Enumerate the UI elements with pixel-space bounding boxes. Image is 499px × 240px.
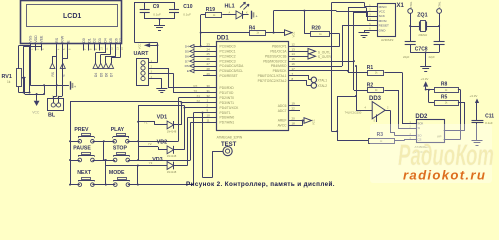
wire SCK riser xyxy=(289,70,348,72)
svg-text:32: 32 xyxy=(207,94,211,98)
svg-text:PC6/RESET: PC6/RESET xyxy=(220,74,238,78)
pushbutton STOP xyxy=(113,146,130,162)
svg-text:DD3: DD3 xyxy=(369,96,382,102)
svg-text:AVCC: AVCC xyxy=(278,124,288,128)
node RS triangle at DD1 xyxy=(185,64,203,68)
wire row2 middle xyxy=(92,160,115,162)
wire X1 GND to ground xyxy=(364,30,368,32)
DD1 left pin 1 PD3/INT1 xyxy=(203,99,234,105)
svg-text:STOP: STOP xyxy=(113,146,128,152)
svg-text:D6: D6 xyxy=(114,38,118,43)
resistor R1 xyxy=(367,65,384,76)
svg-text:XTAL: XTAL xyxy=(409,1,413,8)
svg-text:23: 23 xyxy=(207,42,211,46)
node XTAL circle right xyxy=(437,1,442,13)
svg-text:TX: TX xyxy=(194,89,198,93)
wire VD1 riser to PD3 xyxy=(174,124,182,126)
wire R4 to arrow xyxy=(266,32,285,34)
svg-text:0.1uF: 0.1uF xyxy=(183,12,191,16)
DD1 left pin 10 PD6/AIN0 xyxy=(203,114,234,120)
svg-text:16: 16 xyxy=(292,62,296,66)
svg-text:31: 31 xyxy=(207,89,211,93)
diode VD3 1N4148 xyxy=(152,157,177,174)
wire MISO riser xyxy=(331,3,333,132)
wire to VCC triangle xyxy=(44,85,46,94)
node RS net triangle xyxy=(50,44,57,77)
svg-text:VSS: VSS xyxy=(29,35,33,43)
node D5 net triangle xyxy=(98,44,110,77)
svg-text:PD6/AIN0: PD6/AIN0 xyxy=(220,116,235,120)
svg-text:PD4/T0/XCK: PD4/T0/XCK xyxy=(220,106,240,110)
svg-text:VCC: VCC xyxy=(312,119,316,125)
svg-text:+3.3V: +3.3V xyxy=(470,94,478,98)
svg-text:PC1/ADC1: PC1/ADC1 xyxy=(220,50,236,54)
svg-text:29MHz: 29MHz xyxy=(418,33,427,37)
buffer DD3 74LVC1G125 xyxy=(345,96,389,123)
svg-text:X2: X2 xyxy=(197,99,201,103)
wire LCD VSS jog to RV1 top xyxy=(19,45,31,47)
svg-text:K: K xyxy=(246,11,248,15)
wire row3 riser to PD5 xyxy=(193,113,195,185)
svg-text:S_OUTR: S_OUTR xyxy=(318,55,332,59)
pushbutton PREV xyxy=(74,127,94,143)
ground under C11 xyxy=(472,141,483,146)
wire R5 left xyxy=(429,102,434,104)
svg-text:PB6/TOSC1/XTAL1: PB6/TOSC1/XTAL1 xyxy=(258,74,287,78)
wire row2 riser to PD7 xyxy=(190,122,192,160)
wire R3 right xyxy=(394,140,404,142)
DD1 right pin 18 AVCC xyxy=(278,121,300,127)
node XTAL circle left xyxy=(408,1,413,13)
svg-text:E: E xyxy=(61,74,65,76)
DD1 left pin 26 PC3/ADC3 xyxy=(203,57,236,63)
wire VD3 riser to PD6 xyxy=(174,165,188,167)
svg-text:TEST: TEST xyxy=(221,142,237,148)
svg-text:PD1/TXD: PD1/TXD xyxy=(220,91,235,95)
IC DD1 ATmega8 xyxy=(217,36,289,140)
wire LCD VEE riser xyxy=(29,47,31,93)
capacitor C9 0.1uF xyxy=(140,2,161,19)
node D7 triangle at DD1 xyxy=(185,59,203,63)
net arrow S_OUTL xyxy=(289,49,331,55)
resistor R8 xyxy=(435,81,459,92)
wire C9 C10 bottom rail xyxy=(145,18,174,20)
svg-text:D0: D0 xyxy=(82,38,86,43)
node D4 net triangle xyxy=(93,44,106,77)
connector UART xyxy=(134,51,156,86)
svg-text:19: 19 xyxy=(292,102,296,106)
DD1 left pin 25 PC2/ADC2 xyxy=(203,52,236,58)
svg-text:BL: BL xyxy=(48,113,56,119)
pushbutton PLAY xyxy=(111,127,129,143)
svg-text:D5: D5 xyxy=(99,73,103,77)
svg-text:0.1uF: 0.1uF xyxy=(153,12,161,16)
svg-text:D5: D5 xyxy=(109,38,113,43)
diode VD1 1N4148 xyxy=(157,114,177,133)
svg-text:VD1: VD1 xyxy=(157,114,168,120)
svg-text:D7: D7 xyxy=(119,38,123,43)
pushbutton PAUSE xyxy=(73,146,94,162)
DD1 right pin 20 AREF xyxy=(278,117,300,123)
wire R20 left riser xyxy=(304,11,306,34)
svg-text:PB3/MOSI/OC2: PB3/MOSI/OC2 xyxy=(263,59,286,63)
resistor R5 xyxy=(435,95,459,106)
svg-text:C9: C9 xyxy=(153,4,160,10)
svg-text:R1: R1 xyxy=(367,65,374,71)
wire UART pin1 VCC xyxy=(155,62,157,64)
ground under UART xyxy=(156,89,167,93)
wire VCC rail top xyxy=(273,11,275,33)
node E triangle at DD1 xyxy=(187,69,203,73)
wire UART pin4 to ground xyxy=(155,78,162,80)
wire row1 middle xyxy=(92,141,114,143)
svg-text:RV1: RV1 xyxy=(2,74,12,80)
power +3.3V arrow feeding R8 R5 xyxy=(421,77,429,91)
svg-text:PC0/ADC0: PC0/ADC0 xyxy=(220,45,236,49)
svg-text:Y2: Y2 xyxy=(148,142,152,146)
DD1 right pin 8 PB7/TOSC2/XTAL2 xyxy=(258,77,300,83)
svg-text:15: 15 xyxy=(292,57,296,61)
svg-text:D4: D4 xyxy=(185,45,189,49)
svg-text:1N4148: 1N4148 xyxy=(167,154,177,158)
wire row1 riser to PD2 xyxy=(178,98,180,142)
svg-text:30: 30 xyxy=(207,84,211,88)
svg-text:28: 28 xyxy=(207,67,211,71)
wire LCD VDD riser xyxy=(23,46,25,92)
wire power rail y85 xyxy=(30,85,69,87)
svg-text:14: 14 xyxy=(292,52,296,56)
svg-text:24: 24 xyxy=(207,47,211,51)
svg-text:S_OUTL: S_OUTL xyxy=(318,50,331,54)
power symbol +V near LCD xyxy=(71,81,77,89)
svg-text:PD7/AIN1: PD7/AIN1 xyxy=(220,121,235,125)
DD1 left pin 28 PC5/ADC5/SCL xyxy=(203,67,243,73)
svg-text:PC3/ADC3: PC3/ADC3 xyxy=(220,59,236,63)
svg-text:X1: X1 xyxy=(197,94,201,98)
wire BL pin1 xyxy=(56,56,58,96)
svg-text:PD2/INT0: PD2/INT0 xyxy=(220,96,235,100)
svg-text:12: 12 xyxy=(292,42,296,46)
node XTAL2 circle xyxy=(289,81,328,89)
svg-text:GND: GND xyxy=(379,28,387,32)
svg-text:RS: RS xyxy=(185,64,189,68)
svg-text:ATMEGA8_32PIN: ATMEGA8_32PIN xyxy=(217,136,243,140)
svg-text:R5: R5 xyxy=(441,95,448,101)
svg-text:D4: D4 xyxy=(104,38,108,43)
wire +3.3V to R8 xyxy=(426,89,434,91)
wire R1 right to DD2 SCK xyxy=(384,72,402,74)
svg-text:1N4148: 1N4148 xyxy=(167,170,177,174)
svg-text:VEE: VEE xyxy=(40,35,44,43)
svg-text:D2: D2 xyxy=(93,38,97,43)
svg-text:PB1/OC1A: PB1/OC1A xyxy=(270,50,287,54)
svg-text:VCC: VCC xyxy=(32,111,40,115)
svg-text:1N4148: 1N4148 xyxy=(167,129,177,133)
wire R5 right to DD2 xyxy=(458,102,465,104)
svg-text:R20: R20 xyxy=(312,25,321,31)
crystal ZQ1 20MHz xyxy=(409,12,440,41)
svg-text:A: A xyxy=(229,11,231,15)
svg-text:10: 10 xyxy=(207,114,211,118)
svg-text:RS: RS xyxy=(51,72,55,76)
svg-text:PC4/ADC4/SDA: PC4/ADC4/SDA xyxy=(220,64,245,68)
DD1 right pin 12 PB0/ICP1 xyxy=(272,42,300,48)
DD1 right pin 17 PB5/SCK xyxy=(273,67,300,73)
svg-text:26: 26 xyxy=(207,57,211,61)
resistor R20 xyxy=(311,25,330,36)
node D6 triangle at DD1 xyxy=(185,54,203,58)
wire R1 left from SCK riser xyxy=(348,71,350,73)
svg-text:PD3/INT1: PD3/INT1 xyxy=(220,101,235,105)
DD1 left pin 27 PC4/ADC4/SDA xyxy=(203,62,244,68)
svg-text:AVRISP2: AVRISP2 xyxy=(381,38,394,42)
capacitor C7 22pF xyxy=(403,42,416,60)
net arrow S_OUTR xyxy=(289,53,332,59)
DD1 left pin 31 PD1/TXD xyxy=(203,89,234,95)
svg-text:PB4/MISO: PB4/MISO xyxy=(271,64,287,68)
net arrow VCC near UART xyxy=(138,43,159,49)
svg-text:29: 29 xyxy=(207,72,211,76)
capacitor C8 22pF xyxy=(429,42,445,60)
svg-text:XTAL2: XTAL2 xyxy=(318,84,328,88)
DD1 left pin 32 PD2/INT0 xyxy=(203,94,234,100)
DD1 left pin 24 PC1/ADC1 xyxy=(203,47,236,53)
node D6 net triangle xyxy=(103,44,116,77)
svg-text:radiokot.ru: radiokot.ru xyxy=(403,168,486,183)
VCC arrow under LCD xyxy=(32,94,40,115)
net arrow VCC at AREF xyxy=(289,118,316,126)
wire row1 to riser xyxy=(127,141,178,143)
wire R4 row xyxy=(201,32,250,34)
svg-text:D7: D7 xyxy=(185,59,189,63)
svg-text:D7: D7 xyxy=(110,73,114,77)
svg-text:PB2/SS/OC1B: PB2/SS/OC1B xyxy=(265,54,287,58)
svg-text:+: + xyxy=(74,85,76,89)
backlight connector BL xyxy=(48,97,64,119)
wire wiper rail y94 xyxy=(25,94,44,96)
svg-text:R/W: R/W xyxy=(61,35,65,43)
wire Y2 to VD2 xyxy=(138,146,158,148)
svg-text:LCD1: LCD1 xyxy=(63,13,81,20)
wire C7 C8 bottom rail xyxy=(410,52,439,54)
svg-text:C10: C10 xyxy=(183,4,192,10)
DD1 left pin 30 PD0/RXD xyxy=(203,84,234,90)
resistor R3 xyxy=(369,132,395,144)
svg-text:VCC: VCC xyxy=(292,32,296,38)
svg-text:PB5/SCK: PB5/SCK xyxy=(273,69,288,73)
wire row3 middle xyxy=(92,184,115,186)
svg-text:D5: D5 xyxy=(185,50,189,54)
resistor R2 xyxy=(367,83,384,93)
svg-text:11: 11 xyxy=(207,118,210,122)
wire TEST loop xyxy=(202,113,204,178)
power symbol +V after HL1 xyxy=(252,11,258,19)
svg-text:25: 25 xyxy=(207,52,211,56)
svg-text:PD0/RXD: PD0/RXD xyxy=(220,86,235,90)
svg-text:XTAL: XTAL xyxy=(438,1,442,8)
svg-text:D4: D4 xyxy=(94,73,98,77)
DD1 right pin 15 PB3/MOSI/OC2 xyxy=(263,57,300,63)
svg-text:D6: D6 xyxy=(105,73,109,77)
svg-text:AREF: AREF xyxy=(278,119,287,123)
wire R2 right to DD2 SI xyxy=(384,90,398,92)
svg-text:ADC6: ADC6 xyxy=(278,104,287,108)
wire right column to PD4 xyxy=(138,105,184,107)
svg-text:22pF: 22pF xyxy=(403,55,410,59)
wire R3 left riser xyxy=(337,140,368,142)
DD1 left pin 11 PD7/AIN1 xyxy=(203,118,234,124)
svg-text:VDD: VDD xyxy=(34,35,38,43)
connector X1 AVRISP2 xyxy=(368,3,405,42)
svg-text:PD5/T1: PD5/T1 xyxy=(220,111,231,115)
svg-text:UART: UART xyxy=(134,51,150,57)
capacitor C11 0.1uF xyxy=(472,114,495,141)
svg-text:MISO: MISO xyxy=(379,5,388,9)
watermark box xyxy=(370,124,492,183)
svg-text:PB7/TOSC2/XTAL2: PB7/TOSC2/XTAL2 xyxy=(258,79,287,83)
resistor R19 xyxy=(206,7,222,17)
svg-text:PAUSE: PAUSE xyxy=(73,146,91,152)
DD1 right pin 14 PB2/SS/OC1B xyxy=(265,52,300,58)
svg-text:Рисунок 2. Контроллер, память: Рисунок 2. Контроллер, память и дисплей. xyxy=(186,180,335,188)
wire bus to PD3 xyxy=(70,101,182,103)
DD1 left pin 2 PD4/T0/XCK xyxy=(203,104,239,110)
svg-text:20: 20 xyxy=(292,117,296,121)
node E net triangle xyxy=(60,44,68,77)
DD1 right pin 22 ADC7 xyxy=(278,107,300,113)
svg-text:PB0/ICP1: PB0/ICP1 xyxy=(272,45,287,49)
wire VCC top rail xyxy=(134,2,174,4)
DD1 left pin 9 PD5/T1 xyxy=(203,109,231,115)
svg-text:X1: X1 xyxy=(397,3,405,9)
svg-text:RESET: RESET xyxy=(379,24,389,28)
DD1 right pin 13 PB1/OC1A xyxy=(270,47,300,53)
svg-text:ZQ1: ZQ1 xyxy=(417,12,427,18)
svg-text:18: 18 xyxy=(292,121,296,125)
LCD1 display module xyxy=(21,1,125,51)
wire R2 left from MOSI riser xyxy=(353,61,355,90)
wire DD3 output to DD2 SO xyxy=(385,110,390,112)
svg-text:RX: RX xyxy=(194,84,198,88)
svg-text:+3.3V: +3.3V xyxy=(421,77,429,81)
wire bus to row1 xyxy=(70,141,80,143)
DD1 right pin 7 PB6/TOSC1/XTAL1 xyxy=(258,72,300,78)
svg-text:VCC: VCC xyxy=(379,10,386,14)
wire Y1 to VD1 xyxy=(138,121,155,123)
IC DD2 dataflash xyxy=(408,114,445,154)
svg-text:PC5/ADC5/SCL: PC5/ADC5/SCL xyxy=(220,69,244,73)
svg-text:HL1: HL1 xyxy=(225,4,235,10)
svg-text:DD1: DD1 xyxy=(217,36,230,42)
svg-text:PREV: PREV xyxy=(74,127,89,133)
svg-text:27: 27 xyxy=(207,62,211,66)
node D7 net triangle xyxy=(109,44,121,77)
svg-text:VD2: VD2 xyxy=(157,139,168,145)
wire column link right rows1-2 xyxy=(138,106,140,160)
wire R19 left riser xyxy=(201,14,206,16)
DD1 left pin 29 PC6/RESET xyxy=(203,72,238,78)
ground under C7 C8 xyxy=(420,67,431,72)
potentiometer RV1 xyxy=(2,46,26,94)
svg-text:VCC: VCC xyxy=(138,43,142,49)
svg-text:Y1: Y1 xyxy=(144,120,148,124)
wire bus to row3 xyxy=(70,184,80,186)
svg-text:VD3: VD3 xyxy=(152,157,163,163)
ground under X1 xyxy=(359,33,370,38)
svg-text:MODE: MODE xyxy=(109,170,125,176)
wire button left bus xyxy=(70,102,72,185)
power +3.3V label at C11 xyxy=(470,94,480,120)
wire MODE right leg xyxy=(137,166,139,185)
wire R8 right to DD2 CS xyxy=(458,89,461,91)
net arrow VCC right of R4 xyxy=(285,30,296,38)
svg-text:R8: R8 xyxy=(441,81,448,87)
svg-text:+: + xyxy=(256,15,258,19)
DD1 right pin 19 ADC6 xyxy=(278,102,300,108)
wire column link left rows2-3 xyxy=(105,160,107,185)
diode VD2 1N4148 xyxy=(157,139,177,158)
svg-text:C11: C11 xyxy=(485,114,494,120)
resistor R4 xyxy=(249,25,266,35)
wire Y3 to VD3 xyxy=(106,165,167,167)
wire BL pin2 xyxy=(62,44,64,96)
wire R20 to PB0 xyxy=(330,33,340,35)
pushbutton MODE xyxy=(109,170,130,186)
wire bottom rail xyxy=(19,92,30,94)
button TEST xyxy=(221,142,237,156)
node D4 triangle at DD1 xyxy=(185,45,203,49)
wire UART pin2 to RXD xyxy=(155,68,168,70)
svg-text:RS: RS xyxy=(55,37,59,43)
wire UART pin3 to TXD xyxy=(155,73,173,75)
wire MOSI riser xyxy=(289,61,354,63)
capacitor C10 0.1uF xyxy=(169,2,193,19)
svg-text:MOSI: MOSI xyxy=(379,19,387,23)
wire bus to row2 xyxy=(70,160,80,162)
node XTAL1 circle xyxy=(289,76,328,83)
svg-text:XTAL1: XTAL1 xyxy=(318,78,328,82)
wire row2 to riser xyxy=(128,160,191,162)
wire DD3 input from MISO xyxy=(288,66,290,68)
watermark logo xyxy=(398,139,494,172)
svg-text:D6: D6 xyxy=(185,54,189,58)
node D5 triangle at DD1 xyxy=(185,49,203,53)
svg-text:D3: D3 xyxy=(98,38,102,43)
svg-text:1k: 1k xyxy=(7,80,11,84)
svg-text:PLAY: PLAY xyxy=(111,127,125,133)
pushbutton NEXT xyxy=(77,170,94,186)
DD1 left pin 23 PC0/ADC0 xyxy=(203,42,236,48)
ground under C9 C10 xyxy=(154,26,165,31)
svg-text:NEXT: NEXT xyxy=(77,170,92,176)
wire row3 to riser xyxy=(128,184,194,186)
svg-text:E: E xyxy=(187,69,189,73)
svg-text:PC2/ADC2: PC2/ADC2 xyxy=(220,54,236,58)
wire VSS down xyxy=(30,46,32,86)
svg-text:22: 22 xyxy=(292,107,296,111)
svg-text:SCK: SCK xyxy=(379,14,386,18)
wire RESET riser xyxy=(342,25,368,27)
svg-text:D1: D1 xyxy=(87,38,91,43)
wire column link left rows1-2 xyxy=(103,141,105,160)
svg-text:22pF: 22pF xyxy=(429,55,436,59)
DD1 right pin 16 PB4/MISO xyxy=(271,62,300,68)
svg-text:13: 13 xyxy=(292,47,296,51)
LED HL1 xyxy=(222,2,249,19)
wire VD2 riser to PD4 xyxy=(174,149,185,151)
svg-text:ADC7: ADC7 xyxy=(278,109,287,113)
